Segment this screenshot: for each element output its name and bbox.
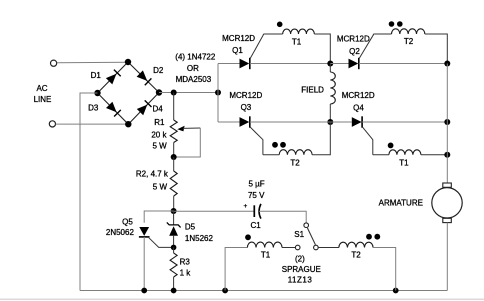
transistor Q5 (SCR 2N5062)	[139, 227, 150, 237]
node R3-bus	[171, 288, 177, 294]
svg-text:T2: T2	[290, 158, 300, 167]
wire (gate to T2)	[373, 33, 391, 35]
diode D5 (zener 1N5262)	[167, 222, 181, 235]
label (4) 1N4722 OR MDA2503	[175, 53, 216, 85]
wire (R1 bottom lead)	[173, 143, 175, 158]
svg-text:R1: R1	[154, 118, 165, 127]
wire (T1 bottom to switch)	[282, 247, 295, 249]
wire (gate to T2 mid)	[263, 154, 279, 156]
node bridge left	[94, 90, 100, 96]
node T1-branch-bus	[222, 288, 228, 294]
wire (T1 mid to rail)	[421, 154, 447, 156]
svg-text:5 µF: 5 µF	[249, 180, 265, 189]
label D2	[153, 66, 164, 75]
svg-text:MCR12D: MCR12D	[337, 35, 370, 44]
label T1 top	[292, 38, 302, 47]
svg-text:Q2: Q2	[349, 47, 360, 56]
diode D2	[137, 70, 152, 85]
label MCR12D Q2	[337, 35, 370, 57]
svg-text:MCR12D: MCR12D	[222, 34, 255, 43]
wire (right rail upper)	[446, 64, 448, 184]
svg-text:1 k: 1 k	[180, 269, 192, 278]
wire (T2 bottom to bus)	[373, 248, 396, 291]
svg-text:D4: D4	[152, 105, 163, 114]
AC line terminal (bottom)	[49, 121, 55, 127]
svg-text:5 W: 5 W	[152, 142, 167, 151]
wire (bus branch up to T1 bottom)	[225, 248, 247, 291]
polarity dots T2 bottom	[366, 234, 380, 240]
svg-text:MDA2503: MDA2503	[176, 75, 212, 84]
label T2 top	[404, 37, 414, 46]
node R1 top junction	[171, 90, 177, 96]
wire (gate to T1)	[263, 33, 282, 35]
wire (field bottom lead)	[329, 104, 331, 122]
wire (rail to Q3 anode)	[218, 121, 240, 123]
label MCR12D Q1	[222, 34, 255, 55]
thyristor Q3 (MCR12D)	[240, 116, 250, 127]
label ARMATURE	[379, 199, 423, 208]
wire (bridge edge left-bottom)	[98, 93, 129, 124]
diode D3	[106, 102, 121, 117]
svg-text:75 V: 75 V	[248, 191, 265, 200]
wire (Q5 cathode to bus)	[143, 237, 145, 291]
node field bottom junction	[327, 119, 333, 125]
wire (D5 anode to gate node)	[173, 236, 175, 248]
transformer T2 bottom winding	[339, 242, 373, 247]
wire (node A to Q5 anode)	[144, 211, 173, 223]
svg-text:+: +	[244, 203, 248, 210]
wire (wiper loop)	[174, 128, 201, 157]
label T1 mid	[399, 158, 409, 167]
wire (R2 top lead)	[173, 157, 175, 171]
svg-text:1N5262: 1N5262	[185, 234, 214, 243]
label D4	[152, 105, 163, 114]
svg-text:D1: D1	[91, 71, 102, 80]
wire (node A to D5 cathode)	[173, 211, 175, 225]
transformer T1 mid winding	[389, 150, 421, 155]
wire (Q2 gate)	[359, 34, 373, 58]
label R1 20k 5W	[151, 118, 167, 150]
svg-text:S1: S1	[294, 230, 304, 239]
decorative-none	[0, 299, 484, 301]
node bridge top	[125, 59, 131, 65]
polarity dot T1 bottom	[245, 234, 251, 240]
svg-text:11Z13: 11Z13	[288, 276, 313, 285]
thyristor Q2 (MCR12D)	[349, 58, 359, 69]
thyristor Q4 (MCR12D)	[352, 116, 362, 127]
svg-text:5 W: 5 W	[153, 182, 168, 191]
svg-text:FIELD: FIELD	[301, 85, 324, 94]
wire (Q1 cathode bus)	[250, 63, 330, 65]
label MCR12D Q4	[342, 91, 375, 113]
svg-text:2N5062: 2N5062	[106, 228, 135, 237]
svg-text:D2: D2	[153, 66, 164, 75]
svg-text:R3: R3	[180, 258, 191, 267]
label FIELD	[301, 85, 324, 94]
wire (field bottom node to Q4 anode)	[330, 121, 352, 123]
label T2 mid	[290, 158, 300, 167]
wire (top terminal to bridge top node)	[57, 61, 128, 64]
node field top junction	[327, 61, 333, 67]
transformer T1 top winding	[283, 29, 315, 34]
resistor R3	[170, 253, 177, 277]
capacitor C1	[254, 204, 261, 219]
wire (T2 to right rail)	[425, 34, 448, 64]
label D1	[91, 71, 102, 80]
wire (switch to T2 bottom)	[318, 247, 339, 249]
node bridge bottom	[125, 121, 131, 127]
wire (node A to C1)	[174, 210, 254, 212]
diode D1	[106, 70, 121, 85]
svg-text:ARMATURE: ARMATURE	[379, 199, 423, 208]
svg-text:C1: C1	[250, 221, 261, 230]
wiper arrow of R1	[177, 126, 200, 132]
polarity dots T2 mid	[272, 142, 286, 148]
svg-text:AC: AC	[36, 84, 47, 93]
node Q2-rail junction	[444, 61, 450, 67]
wire (field top lead)	[329, 64, 331, 73]
svg-text:T2: T2	[351, 251, 361, 260]
svg-text:Q4: Q4	[353, 103, 364, 112]
wire (Q3 cathode bus)	[250, 121, 330, 123]
svg-text:LINE: LINE	[34, 95, 52, 104]
label D5 1N5262	[185, 223, 214, 244]
wire (Q4 gate)	[363, 127, 373, 155]
node rail junction	[215, 90, 221, 96]
svg-text:(4) 1N4722: (4) 1N4722	[175, 53, 216, 62]
thyristor Q1 (MCR12D)	[240, 58, 250, 69]
wire (bridge right node to rail)	[159, 92, 218, 94]
polarity dots T2 top	[389, 21, 403, 27]
transformer T1 bottom winding	[247, 242, 282, 247]
node Q5-bus	[141, 288, 147, 294]
resistor R1	[170, 120, 177, 143]
label (2) SPRAGUE 11Z13	[282, 255, 321, 285]
wire (gate to T1 mid)	[373, 154, 389, 156]
wire (T2 mid to field bottom node)	[312, 122, 330, 155]
AC line terminal (top)	[51, 60, 57, 66]
diode D4	[137, 100, 152, 115]
svg-text:Q5: Q5	[122, 218, 133, 227]
wire (R2 bottom lead)	[173, 196, 175, 211]
transformer T2 top winding	[392, 29, 425, 34]
svg-text:T1: T1	[261, 251, 271, 260]
wire (Q1 gate)	[250, 34, 263, 58]
wire (bridge left node to bottom bus)	[80, 93, 98, 291]
wire (rail to Q1 anode)	[218, 63, 240, 65]
node D5-R3-gate junction	[171, 245, 177, 251]
wire (R3 top lead)	[173, 247, 175, 253]
wire (bridge edge top-right)	[128, 62, 159, 93]
node bridge right	[156, 89, 162, 95]
wire (Q2 cathode bus)	[359, 63, 448, 65]
svg-text:T2: T2	[404, 37, 414, 46]
wire (R3 bottom lead)	[173, 277, 175, 291]
svg-text:(2): (2)	[295, 255, 305, 264]
wire (R1 top lead)	[173, 93, 175, 121]
wire (armature to bus)	[446, 223, 448, 291]
wire (Q5 gate)	[149, 238, 174, 248]
svg-text:D3: D3	[88, 103, 99, 112]
polarity dot T1 mid	[388, 143, 394, 149]
label T2 bottom	[351, 251, 361, 260]
label R2 4.7k 5W	[136, 170, 169, 192]
transformer T2 mid winding	[279, 150, 312, 155]
wire (Q3 gate)	[250, 127, 263, 155]
wire (T1 to field node)	[314, 34, 330, 64]
label R3 1k	[180, 258, 192, 278]
label T1 bottom	[261, 251, 271, 260]
node T2-branch-bus	[393, 288, 399, 294]
node T1mid-rail junction	[444, 152, 450, 158]
svg-text:MCR12D: MCR12D	[342, 91, 375, 100]
label Q5 2N5062	[106, 218, 135, 238]
armature motor	[432, 183, 462, 223]
svg-text:MCR12D: MCR12D	[229, 91, 262, 100]
label D3	[88, 103, 99, 112]
resistor R2	[170, 171, 177, 196]
label + 5uF 75V C1	[244, 180, 266, 230]
svg-text:Q1: Q1	[232, 46, 243, 55]
node R1-R2 junction	[171, 154, 177, 160]
wire (bottom terminal to bridge bottom node)	[56, 123, 129, 125]
label MCR12D Q3	[229, 91, 262, 112]
wire (Q4 cathode bus)	[362, 121, 447, 123]
svg-text:20 k: 20 k	[151, 131, 167, 140]
svg-text:T1: T1	[292, 38, 302, 47]
field winding	[330, 72, 335, 104]
polarity dot T1 top	[277, 22, 283, 28]
label S1	[294, 230, 304, 239]
node Q4-rail junction	[444, 119, 450, 125]
node A (R2 bottom junction)	[171, 208, 177, 214]
svg-text:T1: T1	[399, 158, 409, 167]
svg-text:SPRAGUE: SPRAGUE	[282, 265, 321, 274]
wire (bottom bus)	[80, 290, 447, 292]
wire (C1 to switch)	[259, 211, 306, 223]
wire (bridge edge bottom-right)	[128, 93, 159, 125]
wire (left rail vertical)	[217, 64, 219, 123]
svg-text:Q3: Q3	[241, 103, 252, 112]
svg-text:R2, 4.7 k: R2, 4.7 k	[136, 170, 169, 179]
wire (bridge edge left-top)	[98, 62, 129, 93]
label AC LINE	[34, 84, 52, 104]
svg-text:D5: D5	[185, 223, 196, 232]
svg-text:OR: OR	[187, 64, 199, 73]
wire (field node to Q2 anode)	[330, 63, 348, 65]
switch S1	[295, 223, 318, 250]
